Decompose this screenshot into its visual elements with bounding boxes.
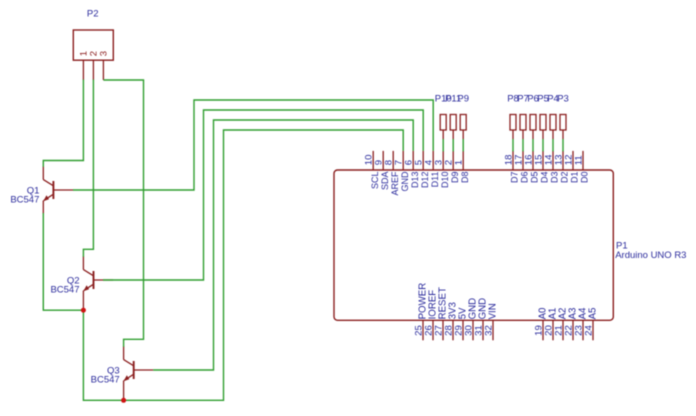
label P10 (435, 93, 452, 104)
connector P5 (540, 115, 546, 140)
connector P2 (73, 30, 113, 60)
pin 17 D6 stub (522, 151, 524, 170)
label P6 (527, 93, 539, 104)
pin name D9 (450, 172, 460, 184)
svg-text:SDA: SDA (380, 172, 390, 191)
pin number 3 (434, 160, 445, 165)
pin number 24 (584, 325, 595, 336)
pin name SDA (380, 172, 390, 191)
label Q3 (107, 366, 120, 377)
pin name D2 (560, 172, 570, 184)
wire P3 to Arduino pin (562, 139, 564, 151)
pin 25 POWER stub (422, 320, 424, 340)
wire Q1 emitter to ground rail (43, 213, 83, 310)
svg-text:P2: P2 (87, 8, 99, 19)
pin name A2 (558, 308, 569, 320)
transistor Q1 (43, 166, 73, 201)
wire P2 pin1 to Q1 collector (43, 80, 83, 167)
pin 32 VIN stub (492, 320, 494, 340)
pin number 13 (554, 155, 565, 166)
label P7 (517, 93, 529, 104)
wire P4 to Arduino pin (552, 139, 554, 151)
pin name D12 (420, 172, 430, 189)
svg-text:D5: D5 (530, 172, 540, 184)
pin name 5V (458, 307, 469, 319)
pin name D10 (440, 172, 450, 189)
pin number 8 (384, 160, 395, 165)
label P3 (557, 93, 569, 104)
pin number 23 (574, 325, 585, 336)
transistor Q3 (124, 346, 154, 381)
P2 pin 2 number (88, 51, 99, 56)
label P9 (457, 93, 469, 104)
pin number 11 (574, 155, 585, 165)
pin 20 A1 stub (552, 320, 554, 340)
Q2 emitter lead (82, 291, 84, 311)
svg-text:D11: D11 (430, 172, 440, 188)
pin 6 D13 stub (412, 151, 414, 170)
pin name RESET (438, 287, 449, 319)
pin 8 AREF stub (392, 151, 394, 170)
pin number 20 (544, 325, 555, 336)
pin number 25 (414, 325, 425, 336)
pin number 27 (434, 325, 445, 336)
pin name D6 (520, 172, 530, 184)
pin 16 D5 stub (532, 151, 534, 170)
svg-text:D1: D1 (570, 172, 580, 184)
pin 28 3V3 stub (452, 320, 454, 340)
svg-text:D3: D3 (550, 172, 560, 184)
svg-text:BC547: BC547 (10, 195, 39, 206)
wire ground rail to Arduino GND pin 7 (83, 130, 403, 400)
wire P2 pin3 to Q3 collector (103, 80, 143, 347)
P2 pin 3 number (98, 51, 109, 56)
svg-text:VIN: VIN (488, 303, 499, 319)
pin number 4 (424, 159, 435, 165)
label Q1 (27, 186, 40, 197)
svg-text:D7: D7 (510, 172, 520, 184)
pin number 32 (484, 325, 495, 336)
svg-text:D13: D13 (410, 172, 420, 189)
pin name VIN (488, 303, 499, 319)
pin name A4 (578, 307, 589, 319)
pin number 18 (504, 155, 515, 166)
svg-text:D4: D4 (540, 172, 550, 184)
connector P8 (510, 115, 516, 140)
pin 11 D0 stub (582, 151, 584, 170)
pin name D1 (570, 172, 580, 184)
value BC547 (Q1) (10, 195, 39, 206)
pin name GND (468, 298, 479, 320)
pin name D4 (540, 172, 550, 184)
svg-text:D9: D9 (450, 172, 460, 184)
pin 27 RESET stub (442, 320, 444, 340)
pin 30 GND stub (472, 320, 474, 340)
connector P4 (550, 115, 556, 140)
P2 pin 3 stub (102, 60, 104, 80)
junction at Q3 emitter and ground rail (121, 398, 126, 403)
pin number 17 (514, 155, 525, 166)
pin number 6 (404, 160, 415, 165)
label P8 (507, 93, 519, 104)
svg-text:1: 1 (454, 160, 465, 165)
pin 5 D12 stub (422, 151, 424, 170)
wire P6 to Arduino pin (532, 139, 534, 151)
pin number 12 (564, 155, 575, 166)
wire P2 pin2 to Q2 collector (83, 80, 93, 257)
pin number 21 (554, 325, 565, 336)
pin number 16 (524, 155, 535, 166)
wire P7 to Arduino pin (522, 139, 524, 151)
pin name D5 (530, 172, 540, 184)
svg-text:D6: D6 (520, 172, 530, 184)
connector P6 (530, 115, 536, 140)
pin number 30 (464, 325, 475, 336)
P2 pin 1 stub (82, 60, 84, 80)
pin name 3V3 (448, 302, 459, 319)
svg-text:Arduino UNO R3: Arduino UNO R3 (615, 250, 686, 261)
connector P7 (520, 115, 526, 140)
pin number 28 (444, 325, 455, 336)
pin 31 GND stub (482, 320, 484, 340)
pin 9 SDA stub (382, 151, 384, 170)
Q1 emitter lead (42, 201, 44, 214)
svg-text:D8: D8 (460, 172, 470, 184)
wire P10 to Arduino pin (442, 139, 444, 151)
pin number 29 (454, 325, 465, 336)
pin 12 D1 stub (572, 151, 574, 170)
pin name A3 (568, 308, 579, 320)
pin 15 D4 stub (542, 151, 544, 170)
pin number 26 (424, 325, 435, 336)
connector P11 (450, 115, 456, 140)
pin number 15 (534, 155, 545, 166)
pin 3 D10 stub (442, 151, 444, 170)
svg-text:11: 11 (574, 155, 585, 165)
pin name IOREF (428, 290, 439, 320)
pin number 2 (444, 160, 455, 165)
junction at Q2 emitter and ground rail (81, 308, 86, 313)
pin name D11 (430, 172, 440, 188)
svg-text:BC547: BC547 (91, 375, 120, 386)
pin number 10 (364, 155, 375, 166)
svg-text:D10: D10 (440, 172, 450, 189)
pin 22 A3 stub (572, 320, 574, 340)
pin 2 D9 stub (452, 151, 454, 170)
pin name GND (478, 298, 489, 320)
label P2 (87, 8, 99, 19)
pin name D0 (580, 172, 590, 184)
pin 26 IOREF stub (432, 320, 434, 340)
svg-text:AREF: AREF (390, 171, 400, 196)
connector P9 (460, 115, 466, 140)
pin 1 D8 stub (462, 151, 464, 170)
pin number 5 (414, 160, 425, 165)
wire Q2 base to Arduino D12 pin 5 (103, 110, 423, 280)
Q3 emitter lead (123, 381, 125, 401)
pin name AREF (390, 171, 400, 196)
pin name D3 (550, 172, 560, 184)
P2 pin 1 number (78, 51, 89, 56)
pin 21 A2 stub (562, 320, 564, 340)
pin name D13 (410, 172, 420, 189)
pin 10 SCL stub (372, 151, 374, 170)
pin name A0 (538, 307, 549, 319)
pin number 31 (474, 325, 485, 336)
pin 29 5V stub (462, 320, 464, 340)
connector P10 (440, 115, 446, 140)
wire P9 to Arduino pin (462, 139, 464, 151)
svg-text:P3: P3 (557, 93, 569, 104)
pin name POWER (418, 283, 429, 320)
svg-text:A5: A5 (588, 308, 599, 320)
svg-text:D12: D12 (420, 172, 430, 189)
value BC547 (Q3) (91, 375, 120, 386)
value BC547 (Q2) (50, 285, 79, 296)
label Q2 (67, 276, 80, 287)
value Arduino UNO R3 (615, 250, 686, 261)
label P1 (616, 240, 628, 251)
pin 24 A5 stub (592, 320, 594, 340)
pin number 1 (454, 160, 465, 165)
pin name GND (400, 171, 410, 192)
pin number 14 (544, 154, 555, 165)
svg-text:32: 32 (484, 325, 495, 336)
svg-text:D2: D2 (560, 172, 570, 184)
wire P8 to Arduino pin (512, 139, 514, 151)
label P11 (445, 93, 461, 104)
pin 18 D7 stub (512, 151, 514, 170)
pin number 19 (534, 325, 545, 336)
svg-text:3: 3 (98, 51, 109, 56)
wire P11 to Arduino pin (452, 139, 454, 151)
Arduino UNO R3 body P1 (334, 170, 613, 320)
P2 pin 2 stub (92, 60, 94, 80)
svg-text:P9: P9 (457, 93, 469, 104)
label P5 (537, 93, 549, 104)
pin name D7 (510, 172, 520, 184)
label P4 (547, 93, 559, 104)
pin 19 A0 stub (542, 320, 544, 340)
pin number 9 (374, 160, 385, 165)
pin 13 D2 stub (562, 151, 564, 170)
pin number 22 (564, 325, 575, 336)
pin name A5 (588, 308, 599, 320)
wire Q1 base to Arduino D11 pin 4 (73, 100, 433, 190)
transistor Q2 (83, 256, 113, 291)
pin 7 GND stub (402, 151, 404, 170)
svg-text:BC547: BC547 (50, 285, 79, 296)
pin name D8 (460, 172, 470, 184)
svg-text:D0: D0 (580, 172, 590, 184)
svg-text:SCL: SCL (370, 172, 380, 190)
pin 4 D11 stub (432, 151, 434, 170)
pin name A1 (548, 308, 559, 320)
pin number 7 (394, 160, 405, 165)
pin name SCL (370, 172, 380, 190)
wire P5 to Arduino pin (542, 139, 544, 151)
svg-text:GND: GND (400, 171, 410, 192)
wire Q3 base to Arduino D13 pin 6 (153, 120, 413, 370)
connector P3 (560, 115, 566, 140)
svg-text:24: 24 (584, 325, 595, 336)
pin 14 D3 stub (552, 151, 554, 170)
pin 23 A4 stub (582, 320, 584, 340)
